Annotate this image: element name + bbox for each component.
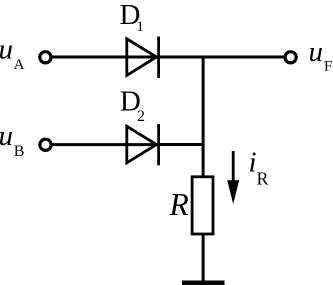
current arrow iR [227,151,239,204]
ground [182,281,225,285]
wire D2 to node [159,143,205,146]
svg-text:F: F [324,58,332,74]
svg-text:1: 1 [136,19,144,35]
wire uA to D1 [52,56,159,59]
svg-text:u: u [0,120,13,152]
svg-text:u: u [0,34,13,66]
wire vertical node to resistor [202,56,205,178]
svg-text:R: R [257,168,269,188]
node uB terminal circle [40,139,51,150]
svg-text:2: 2 [137,108,145,125]
svg-text:i: i [249,147,257,179]
resistor R [192,177,213,234]
svg-text:B: B [14,143,25,160]
diode D2 [127,124,159,165]
node uA terminal circle [40,52,51,63]
wire resistor to ground [202,234,205,282]
svg-text:A: A [14,57,25,73]
diode D1 [127,37,159,79]
node uF terminal circle [285,52,296,63]
wire D1 to uF [159,56,285,59]
wire uB to D2 [52,143,159,146]
svg-text:u: u [309,36,324,68]
svg-text:R: R [169,187,189,222]
